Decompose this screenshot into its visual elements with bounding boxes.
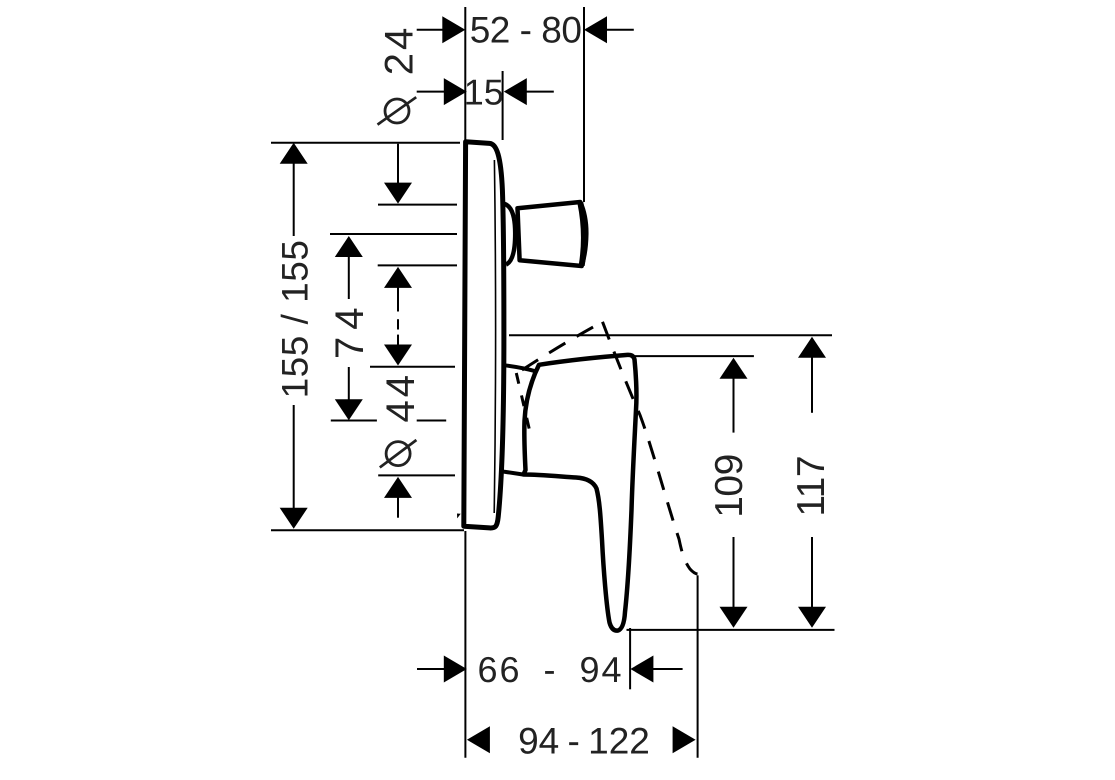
dimension 15 right arrow: [504, 78, 527, 105]
svg-text:66 - 94: 66 - 94: [477, 649, 623, 690]
dimension 117 bottom tail: [811, 537, 813, 609]
extension line x=584 (knob front for 52-80): [583, 7, 585, 202]
extension line y=420.5 left segment (74 bottom): [331, 420, 377, 422]
diameter symbol of 44: [386, 442, 410, 466]
dimension 15 left tail: [417, 91, 445, 93]
dimension 109 bottom tail: [733, 537, 735, 609]
dimension 15 right tail: [526, 91, 554, 93]
extension line x=465 bottom: [464, 531, 466, 758]
dimension 155/155 top tail: [293, 163, 295, 237]
extension line x=630 (handle tip, for 66-94): [629, 628, 631, 689]
dimension 52-80 right arrow: [584, 16, 607, 43]
handle lever outline: [524, 355, 637, 631]
extension line y=334.7 (raised handle top, for 117): [509, 334, 832, 336]
svg-text:52 - 80: 52 - 80: [470, 10, 582, 51]
dimension 109 top arrow: [720, 358, 748, 379]
knob body: [518, 202, 587, 266]
lower segment + down arrow at handle-top line: [397, 335, 399, 346]
handle stem top edge: [505, 365, 537, 371]
plate top extension line: [271, 142, 460, 144]
dimension 74 bottom tail: [348, 367, 350, 401]
plate bottom extension line: [271, 529, 464, 531]
dimension 66-94 right arrow: [630, 656, 653, 683]
extension line y=629.5 (handle bottom): [627, 629, 835, 631]
dimension 109 bottom arrow: [720, 607, 748, 628]
svg-text:109: 109: [708, 454, 751, 518]
diameter symbol of 24: [385, 99, 409, 123]
dimension 155/155 bottom tail: [293, 405, 295, 509]
extension line y=366.8 (handle top, for 44): [370, 366, 455, 368]
dimension 94-122 left arrow (pointing left): [467, 726, 490, 753]
extension line y=355.7 (handle top, for 109): [632, 355, 754, 357]
dimension 44 bottom arrow (pointing up at y=475.4): [384, 477, 412, 498]
svg-text:155 / 155: 155 / 155: [275, 240, 316, 399]
dimension 52-80 left arrow: [442, 16, 465, 43]
svg-text:117: 117: [790, 456, 833, 517]
dimension 66-94 left arrow: [444, 656, 467, 683]
dimension 74 bottom arrow: [335, 399, 363, 420]
dimension 15 left arrow: [444, 78, 467, 105]
escutcheon plate: [464, 142, 504, 528]
extension line y=204.6 (knob top): [378, 204, 457, 206]
dashed stem line of raised handle: [516, 373, 529, 430]
plate front face line: [494, 160, 495, 513]
svg-text:74: 74: [328, 301, 372, 360]
dimension 24 down arrow with tail from plate top: [397, 144, 399, 184]
knob front face arc: [580, 203, 584, 266]
wall corner tick: [457, 514, 461, 519]
dimension 44 upper arrow (pointing up at knob bottom line): [384, 267, 412, 288]
dashed right edge of raised handle with hook: [603, 322, 698, 574]
extension line y=420.5 right segment: [417, 420, 447, 422]
svg-text:24: 24: [378, 25, 422, 76]
dashed top edge of raised handle: [522, 322, 603, 370]
extension line y=475.4 (for 44 bottom): [378, 474, 455, 476]
svg-text:44: 44: [379, 372, 423, 423]
extension line x=465 top (wall plane): [464, 7, 466, 142]
dimension 155/155 bottom arrow: [280, 508, 308, 529]
dimension 52-80 right tail: [606, 29, 634, 31]
extension line y=234 (knob centre, for 74): [330, 233, 457, 235]
svg-text:15: 15: [464, 71, 504, 112]
dimension 94-122 right arrow (pointing right): [673, 726, 696, 753]
extension line y=265.4 (knob bottom): [378, 264, 457, 266]
extension line x=502.8 (plate front for 15): [502, 71, 504, 140]
dimension 52-80 left tail: [417, 29, 444, 31]
handle stem bottom edge: [502, 471, 524, 474]
middle dash: [397, 319, 399, 329]
knob collar: [505, 204, 516, 265]
extension line x=697.6 (raised handle tip, for 94-122): [697, 575, 699, 757]
dimension 117 bottom arrow: [798, 607, 826, 628]
svg-text:94 - 122: 94 - 122: [518, 720, 650, 761]
dimension 74 top arrow: [335, 236, 363, 257]
tail below upper arrow: [397, 287, 399, 312]
dimension 155/155 top arrow: [280, 143, 308, 164]
dimension 117 top arrow: [798, 337, 826, 358]
